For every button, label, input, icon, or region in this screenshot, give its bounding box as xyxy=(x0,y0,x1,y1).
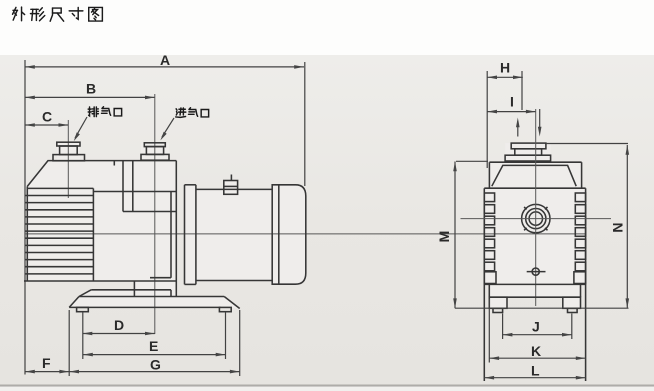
pump hood outline xyxy=(27,161,176,281)
svg-text:G: G xyxy=(150,357,161,373)
intake port centerline xyxy=(154,94,156,334)
dimension B line xyxy=(25,96,155,100)
motor body xyxy=(196,189,272,280)
dimension E line xyxy=(83,353,226,357)
dimension G extension right xyxy=(239,310,241,376)
motor flange band xyxy=(185,185,196,285)
hood verticals / head block xyxy=(114,161,176,297)
N top extension xyxy=(546,143,628,145)
flow arrow up xyxy=(516,118,520,137)
motor end cap xyxy=(272,185,306,284)
dimension L line xyxy=(484,376,585,380)
terminal box xyxy=(224,175,238,195)
right view body bottom xyxy=(484,283,585,285)
intake label leader xyxy=(160,118,174,140)
left side fin squares xyxy=(484,193,496,284)
svg-text:N: N xyxy=(610,222,626,232)
machine interior light silhouette right view xyxy=(484,143,585,308)
dimension I line xyxy=(487,110,536,114)
exhaust port C1 xyxy=(53,142,85,161)
dimension D extension xyxy=(82,312,84,359)
svg-text:L: L xyxy=(531,363,540,379)
right foot pad xyxy=(568,308,578,312)
H left extension xyxy=(486,71,488,168)
dimension H line xyxy=(487,76,523,80)
right view port xyxy=(505,143,550,161)
svg-text:I: I xyxy=(510,94,514,110)
svg-text:E: E xyxy=(149,338,158,354)
intake port C2 xyxy=(141,143,169,160)
left foot xyxy=(489,297,507,308)
right side fin squares xyxy=(574,193,586,284)
svg-text:H: H xyxy=(500,60,510,76)
flow arrow down xyxy=(538,109,542,137)
right view hood xyxy=(484,162,585,188)
M top extension line xyxy=(456,160,488,162)
dimension J line xyxy=(503,333,572,337)
dimension G line xyxy=(69,370,240,374)
svg-text:M: M xyxy=(436,231,452,243)
base bottom reference line xyxy=(455,307,629,309)
bottom light strip xyxy=(0,387,654,391)
base right foot tab xyxy=(219,307,231,311)
cooling fins block xyxy=(25,188,93,281)
intake label 进气口 xyxy=(176,108,209,118)
dimension D line xyxy=(83,332,155,336)
dimension C line xyxy=(25,123,68,127)
background white top xyxy=(0,0,654,55)
saddle plate xyxy=(79,290,171,297)
base left foot tab xyxy=(77,307,89,311)
dimension K line xyxy=(489,356,585,360)
dimension M line xyxy=(453,162,457,309)
svg-text:F: F xyxy=(42,355,51,371)
dimension N line xyxy=(626,145,630,308)
dimension J extensions xyxy=(502,314,504,340)
exhaust label 排气口 xyxy=(88,107,121,117)
machine interior light silhouette left view xyxy=(27,142,306,309)
dimension A line xyxy=(25,65,304,69)
title 外形尺寸图 (hand drawn glyphs) xyxy=(13,7,103,21)
left foot pad xyxy=(493,308,503,312)
dimension F line xyxy=(25,370,69,374)
sight glass xyxy=(522,204,550,232)
body envelope left / L extension xyxy=(483,188,485,381)
exhaust port centerline xyxy=(67,120,69,198)
pedestal left side xyxy=(133,281,135,297)
svg-text:B: B xyxy=(86,81,96,97)
F/G shared extension xyxy=(68,310,70,376)
right foot xyxy=(563,297,581,308)
svg-text:J: J xyxy=(532,319,540,335)
svg-text:K: K xyxy=(531,343,541,359)
dimension K extension left xyxy=(488,299,490,363)
sight glass centerline xyxy=(461,218,612,220)
svg-text:D: D xyxy=(114,317,124,333)
pump bottom line xyxy=(24,280,177,282)
left common extension line xyxy=(24,60,26,375)
H right extension xyxy=(521,71,523,110)
foot plate xyxy=(489,284,580,297)
right view vertical centerline xyxy=(535,109,537,306)
bottom darker scan line xyxy=(0,385,654,387)
drain plug xyxy=(527,268,546,275)
svg-text:C: C xyxy=(42,109,52,125)
dimension E extension xyxy=(225,312,227,359)
oil box front plate xyxy=(93,192,176,278)
main axis centerline xyxy=(25,233,586,235)
svg-text:A: A xyxy=(160,52,170,68)
exhaust label leader xyxy=(74,117,87,141)
dimension A right extension xyxy=(304,62,306,186)
body envelope right / K,L extension xyxy=(585,188,587,381)
base plate left view xyxy=(69,297,240,309)
